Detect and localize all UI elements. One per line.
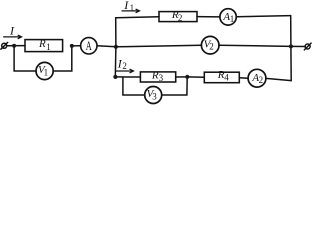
voltmeter V1 (36, 62, 53, 79)
wire R3 to dot (176, 76, 188, 78)
svg-text:3: 3 (159, 73, 164, 83)
svg-text:A: A (86, 38, 92, 53)
svg-text:2: 2 (259, 75, 264, 85)
terminal left (1, 42, 8, 49)
ammeter A1 (220, 9, 236, 25)
wire A2 to right bus corner (266, 78, 291, 80)
wire branch vertical up (115, 18, 117, 47)
terminal right (304, 43, 311, 50)
wire R2 to A1 (197, 16, 220, 18)
svg-text:1: 1 (130, 3, 135, 13)
ammeter A2 (248, 69, 266, 87)
svg-text:1: 1 (230, 14, 235, 24)
svg-text:R: R (38, 38, 46, 50)
resistor R1 (25, 40, 63, 52)
wire R4 to A2 (239, 77, 248, 80)
wire middle rail to V2 (116, 45, 201, 47)
current arrow I2 (116, 69, 134, 72)
wire V2 to right bus (219, 45, 291, 46)
svg-text:1: 1 (44, 68, 49, 78)
node junction dot left (12, 44, 16, 48)
wire V3 branch left (123, 77, 145, 95)
ammeter A (81, 38, 97, 54)
wire right bus (290, 16, 293, 81)
svg-text:1: 1 (46, 42, 51, 52)
wire top rail left (116, 17, 159, 18)
resistor R2 (159, 12, 197, 22)
current arrow I (4, 35, 22, 38)
resistor R3 (140, 72, 175, 82)
wire R1 to A (72, 45, 81, 47)
wire left rail (7, 45, 25, 47)
wire dot to R4 (187, 76, 204, 78)
svg-text:4: 4 (224, 72, 229, 82)
wire bottom rail left (115, 76, 140, 78)
node corner dot bottom-left (113, 75, 117, 79)
node dot right bus (289, 44, 293, 48)
node dot after R1 (70, 44, 74, 48)
svg-text:2: 2 (209, 42, 214, 52)
voltmeter V2 (201, 36, 219, 54)
node dot after R3 (185, 75, 189, 79)
wire V1 branch right (53, 46, 72, 71)
wire V1 branch left (14, 46, 36, 71)
current arrow I1 (122, 9, 140, 12)
svg-text:3: 3 (152, 92, 157, 102)
node cross junction dot (114, 45, 118, 49)
wire branch vertical down (114, 47, 117, 77)
svg-text:2: 2 (178, 13, 183, 23)
wire to right terminal (291, 45, 305, 47)
wire A1 to right bus (236, 16, 290, 17)
resistor R4 (204, 72, 239, 83)
voltmeter V3 (145, 87, 162, 104)
wire V3 branch right (162, 77, 188, 95)
svg-text:2: 2 (122, 61, 127, 71)
wire A to cross node (97, 46, 116, 47)
